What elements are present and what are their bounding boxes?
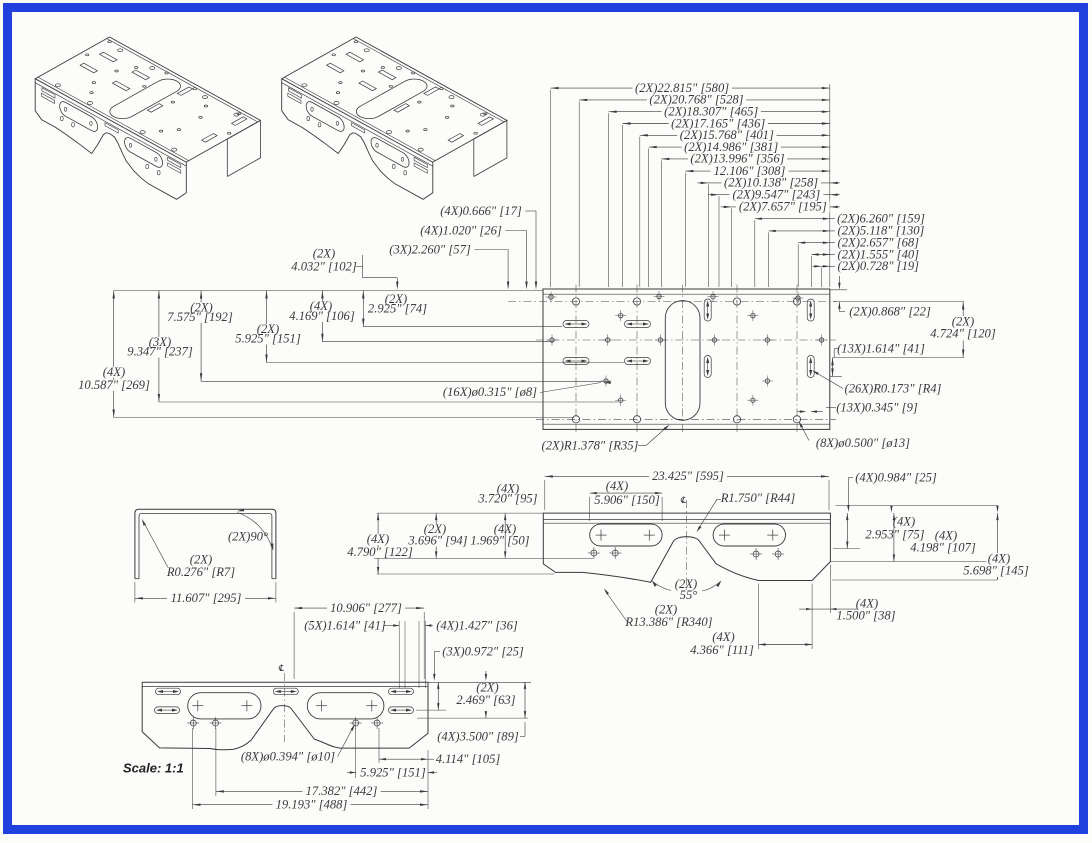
svg-text:3.696" [94]: 3.696" [94] (407, 534, 467, 548)
dimension 10.906" [277] (294, 601, 424, 679)
svg-text:1.500" [38]: 1.500" [38] (836, 609, 895, 623)
dimension (4X)2.953" [75] (846, 513, 925, 548)
dimension 5.925" [151] (347, 728, 437, 780)
dimension (3X)0.972" [25] (428, 645, 531, 683)
leader (8X)diameter 0.500" [13] (799, 421, 911, 450)
front view small cross holes (187, 717, 383, 729)
dimension (2X)15.768" [401] (640, 128, 830, 142)
bottom-right front view outline (543, 513, 830, 582)
svg-text:(2X)0.868" [22]: (2X)0.868" [22] (849, 305, 931, 319)
svg-text:5.906" [150]: 5.906" [150] (594, 493, 660, 507)
dimension (4X)4.790" [122] (344, 513, 417, 574)
svg-text:(4X)3.500" [89]: (4X)3.500" [89] (437, 730, 519, 744)
svg-text:R0.276" [R7]: R0.276" [R7] (166, 565, 235, 579)
svg-text:3.720" [95]: 3.720" [95] (477, 492, 537, 506)
dimension (2X)3.696" [94] (404, 513, 472, 558)
svg-text:4.169" [106]: 4.169" [106] (289, 309, 355, 323)
dimension (4X)0.984" [25] (847, 471, 937, 513)
svg-text:(4X): (4X) (367, 532, 389, 546)
front view lance slots (155, 688, 414, 713)
svg-text:5.698" [145]: 5.698" [145] (963, 564, 1029, 578)
plate vertical lance slots (704, 299, 814, 378)
svg-text:19.193" [488]: 19.193" [488] (276, 798, 348, 812)
dimension (4X)5.698" [145] (960, 513, 1033, 580)
svg-text:2.953" [75]: 2.953" [75] (865, 528, 924, 542)
svg-text:7.575" [192]: 7.575" [192] (167, 310, 233, 324)
plate 8 large holes (572, 298, 800, 423)
dimension (2X)1.555" [40] (812, 247, 919, 261)
dimension (2X)2.469" [63] (416, 681, 516, 711)
isometric view 2 (282, 37, 507, 199)
dimension (4X)1.427" [36] (425, 619, 517, 633)
dimension (2X)7.657" [195] (721, 200, 840, 214)
dimension (4X)10.587" [269] (75, 291, 574, 418)
iso front slots (60, 102, 98, 132)
svg-text:4.790" [122]: 4.790" [122] (347, 545, 413, 559)
svg-text:11.607" [295]: 11.607" [295] (171, 591, 242, 605)
side view channel outline (135, 509, 276, 578)
bottom-left front view outline (142, 682, 428, 749)
right-side extension lines and top dim line (830, 506, 1000, 581)
iso top large holes (55, 49, 239, 151)
plate centerlines (508, 285, 836, 434)
leader R1.750" [R44] (697, 491, 796, 532)
iso front face bend line (35, 83, 186, 167)
dimension 19.193" [488] (193, 728, 429, 812)
svg-text:2.469" [63]: 2.469" [63] (456, 693, 515, 707)
side view dimension 11.607" [295] (135, 582, 276, 605)
dimension (13X)0.345" [9] (797, 401, 918, 415)
svg-text:(2X): (2X) (313, 247, 335, 261)
svg-text:4.198" [107]: 4.198" [107] (910, 541, 976, 555)
dimension fan extension lines (551, 84, 830, 287)
dimension (2X)2.925" [74] (362, 291, 562, 327)
dimension (2X)17.165" [436] (623, 116, 830, 130)
left extension lines of bottom-right view (374, 513, 593, 574)
dimension (4X)3.500" [89] (417, 682, 528, 744)
dimension 12.106" [308] (685, 164, 830, 178)
dimension (4X)5.906" [150] (590, 479, 662, 521)
dimension (2X)6.260" [159] (755, 212, 925, 226)
dimension (4X)4.198" [107] (893, 513, 976, 561)
svg-text:(8X)ø0.500" [ø13]: (8X)ø0.500" [ø13] (816, 436, 910, 450)
iso top small holes (86, 41, 241, 135)
iso top face bend lines (107, 39, 258, 123)
dimension (2X)0.728" [19] (812, 259, 919, 273)
dimension (2X)5.925" [151] (232, 291, 624, 363)
svg-text:(13X)1.614" [41]: (13X)1.614" [41] (837, 342, 925, 356)
svg-text:(2X)0.728" [19]: (2X)0.728" [19] (838, 259, 920, 273)
dimension (3X)9.347" [237] (124, 291, 618, 403)
svg-text:4.366" [111]: 4.366" [111] (690, 643, 754, 657)
dimension (3X)2.260" [57] (389, 243, 509, 290)
svg-text:(4X)0.666" [17]: (4X)0.666" [17] (440, 204, 522, 218)
iso top lance slots (80, 52, 247, 142)
bottom-right view obround slots (590, 524, 786, 546)
svg-text:(3X)0.972" [25]: (3X)0.972" [25] (442, 645, 524, 659)
svg-text:(2X)90°: (2X)90° (228, 530, 268, 544)
leader (16X)diameter 0.315" [8] (443, 382, 611, 400)
svg-text:R13.386" [R340]: R13.386" [R340] (624, 615, 712, 629)
svg-text:(2X)R1.378" [R35]: (2X)R1.378" [R35] (542, 439, 639, 453)
iso top face (35, 37, 260, 162)
isometric view 1 (35, 37, 260, 199)
plate large obround slot (665, 301, 700, 421)
svg-text:(3X)2.260" [57]: (3X)2.260" [57] (389, 243, 471, 257)
side view angle dimension (2X)90deg (228, 509, 273, 551)
leader (2X)R13.386" [R340] (604, 588, 713, 629)
iso front hole marks (60, 107, 160, 175)
dimension (4X)4.366" [111] (690, 584, 812, 657)
iso top obround slot (110, 79, 181, 119)
svg-text:(4X): (4X) (893, 515, 915, 529)
svg-text:℄: ℄ (680, 495, 686, 505)
iso front face profile (35, 79, 186, 200)
svg-text:23.425" [595]: 23.425" [595] (652, 469, 724, 483)
svg-text:2.925" [74]: 2.925" [74] (368, 301, 427, 315)
dimension (2X)14.986" [381] (649, 140, 830, 154)
bottom-right view centerline (686, 500, 688, 592)
bottom-right view small cross holes (588, 547, 784, 560)
iso front lances (41, 88, 181, 174)
svg-text:5.925" [151]: 5.925" [151] (360, 766, 426, 780)
dimension (2X)5.118" [130] (769, 224, 925, 238)
dimension (13X)1.614" [41] (830, 342, 925, 377)
dimension (4X)1.500" [38] (799, 565, 896, 623)
plate horizontal lance slots (563, 321, 651, 365)
svg-text:(26X)R0.173" [R4]: (26X)R0.173" [R4] (845, 382, 942, 396)
dimension (2X)9.547" [243] (708, 188, 840, 202)
dimension (2X)2.657" [68] (798, 236, 919, 250)
svg-text:17.382" [442]: 17.382" [442] (306, 784, 378, 798)
svg-text:℄: ℄ (278, 663, 284, 673)
svg-text:(4X): (4X) (606, 479, 628, 493)
dimension (2X)20.768" [528] (579, 93, 830, 107)
front view obround slots (188, 693, 384, 719)
dimension (2X)22.815" [580] (551, 81, 830, 95)
svg-text:(13X)0.345" [9]: (13X)0.345" [9] (836, 401, 918, 415)
svg-text:4.114" [105]: 4.114" [105] (436, 752, 501, 766)
dimension (4X)0.666" [17] (440, 204, 537, 290)
svg-text:4.032" [102]: 4.032" [102] (291, 260, 357, 274)
dimension (4X)1.969" [50] (470, 522, 529, 548)
dimension 4.114" [105] (379, 728, 500, 766)
svg-text:Scale: 1:1: Scale: 1:1 (123, 761, 184, 776)
dimension (4X)3.720" [95] (477, 482, 537, 559)
front view centerline (283, 673, 285, 742)
leader (26X)R0.173" [R4] (812, 370, 942, 395)
leader (8X)diameter 0.394" [10] (241, 724, 355, 764)
side view leader (2X)R0.276" [R7] (142, 519, 235, 579)
dimension (5X)1.614" [41] (304, 619, 431, 689)
svg-text:(4X): (4X) (103, 365, 125, 379)
dimension (4X)4.169" [106] (286, 291, 554, 342)
dimension 17.382" [442] (216, 728, 428, 798)
leader (2X)R1.378" [R35] (542, 425, 670, 453)
svg-text:1.969" [50]: 1.969" [50] (470, 534, 529, 548)
svg-text:R1.750" [R44]: R1.750" [R44] (720, 491, 796, 505)
dimension (4X)1.020" [26] (420, 224, 527, 290)
svg-text:55°: 55° (680, 588, 698, 602)
dimension (2X)13.996" [356] (661, 152, 830, 166)
svg-text:(16X)ø0.315" [ø8]: (16X)ø0.315" [ø8] (443, 385, 537, 399)
svg-text:(4X)1.020" [26]: (4X)1.020" [26] (420, 224, 502, 238)
left datum extension line (114, 290, 543, 292)
svg-text:(5X)1.614" [41]: (5X)1.614" [41] (304, 619, 386, 633)
dimension (2X)10.138" [258] (698, 176, 840, 190)
dimension (2X)18.307" [465] (609, 105, 830, 119)
svg-text:(4X)1.427" [36]: (4X)1.427" [36] (436, 619, 518, 633)
svg-text:5.925" [151]: 5.925" [151] (235, 332, 301, 346)
dimension 23.425" [595] (545, 469, 829, 510)
svg-text:(2X)7.657" [195]: (2X)7.657" [195] (739, 200, 827, 214)
svg-text:10.906" [277]: 10.906" [277] (330, 601, 402, 615)
dimension (2X)4.724" [120] vertical (833, 302, 999, 358)
svg-text:4.724" [120]: 4.724" [120] (930, 327, 996, 341)
svg-text:9.347" [237]: 9.347" [237] (127, 345, 193, 359)
svg-text:(4X): (4X) (712, 630, 734, 644)
iso right end flange (227, 120, 260, 176)
top view flat-pattern plate outline (543, 289, 830, 429)
dimension (2X)4.032" [102] (291, 247, 398, 290)
dimension (2X)0.868" [22] (830, 276, 931, 319)
svg-text:(8X)ø0.394" [ø10]: (8X)ø0.394" [ø10] (241, 750, 335, 764)
angle dimension (2X)55deg (652, 577, 722, 602)
svg-text:(4X)0.984" [25]: (4X)0.984" [25] (855, 471, 937, 485)
dimension (2X)7.575" [192] (164, 291, 604, 382)
svg-text:10.587" [269]: 10.587" [269] (78, 378, 150, 392)
plate 16 small holes (546, 291, 828, 406)
